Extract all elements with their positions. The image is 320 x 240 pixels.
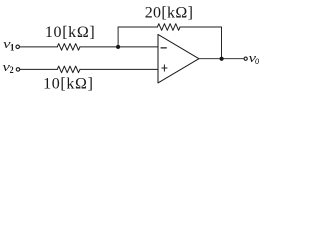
svg-text:o: o [255,55,259,67]
wire top right segment [180,26,222,28]
wire R3 to op-amp non-inverting input [80,68,158,70]
svg-text:10[kΩ]: 10[kΩ] [45,24,95,41]
svg-text:1: 1 [10,43,15,53]
svg-text:2: 2 [10,64,14,75]
resistor R3 [57,66,80,73]
wire feedback right vertical [221,27,223,59]
resistor R2 feedback 20k [157,24,180,31]
wire top left segment [118,26,157,28]
wire v1 to R1 [20,46,57,48]
op-amp U1 triangle [158,34,199,83]
node A junction [116,45,120,49]
wire op-amp output [199,58,244,60]
svg-text:10[kΩ]: 10[kΩ] [43,76,93,93]
wire feedback left vertical [117,27,119,47]
terminal v1 [16,45,20,49]
op-amp minus sign [161,47,166,49]
wire R1 to node A [80,46,118,48]
terminal vo [244,57,247,60]
svg-text:20[kΩ]: 20[kΩ] [145,5,193,22]
op-amp plus sign [162,67,167,69]
wire node A to op-amp inverting input [118,46,158,48]
resistor R1 [57,44,80,51]
node B output junction [220,57,224,61]
wire v2 to R3 [20,68,57,70]
terminal v2 [16,68,20,72]
